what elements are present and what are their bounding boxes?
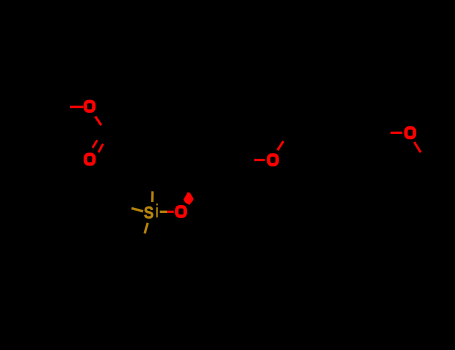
- atom O silyl ether oxygen: [177, 207, 186, 217]
- bond O4-CH3 red half: [414, 142, 421, 152]
- bond Si-O gold half: [160, 211, 167, 213]
- atom Si label: [144, 203, 158, 222]
- bond O3-CH2 red half: [278, 141, 284, 150]
- svg-text:S: S: [144, 203, 154, 222]
- atom O4 (methoxy oxygen): [406, 128, 415, 138]
- wedge bond C4-O (stereo, red visible half): [183, 192, 193, 205]
- wire: chain C3-C4 stereocenter: [189, 147, 191, 192]
- bond CH3-Si gold half (lower methyl): [145, 223, 148, 234]
- wire: TMS methyl black halves: [151, 180, 153, 191]
- wire: CH2-ring ipso: [294, 119, 320, 133]
- double bond C1=O2 red half, inner line: [93, 140, 98, 148]
- bond O1-C1 red half: [95, 116, 101, 125]
- bond Caryl-O4 red half: [391, 132, 403, 134]
- wire: ring-O4 black half: [380, 131, 390, 134]
- wire: chain C2-C3: [140, 112, 190, 147]
- atom O3 (benzyl ether oxygen): [269, 155, 278, 165]
- wire: ester methyl half-bond CH3 side: [56, 106, 70, 108]
- bond Si-O red half: [167, 211, 174, 213]
- wire: C5-C6: [221, 159, 244, 180]
- wire: C6-O3 black half: [244, 158, 254, 160]
- atom O2 (carbonyl oxygen): [85, 154, 94, 164]
- bond C6-O3 red half: [254, 159, 265, 161]
- wire: C1=O2 black halves: [103, 133, 105, 142]
- atom O1 (ester oxygen): [85, 102, 94, 112]
- wire: chain C1-C2: [105, 112, 140, 133]
- benzene ring C6H4: [320, 107, 380, 159]
- wire: C4-C5: [190, 180, 221, 192]
- double bond C1=O2 red half, outer line: [99, 144, 104, 153]
- wire: O4-CH3 black half: [421, 152, 432, 168]
- bond CH3-Si gold half (top methyl): [151, 191, 154, 202]
- wire: O1-C1 black half: [101, 125, 105, 133]
- wire: O3-CH2 benzylic black half: [284, 119, 295, 140]
- bond CH3-Si gold half (left methyl): [132, 208, 144, 211]
- bond CH3-O1 red half: [70, 106, 83, 108]
